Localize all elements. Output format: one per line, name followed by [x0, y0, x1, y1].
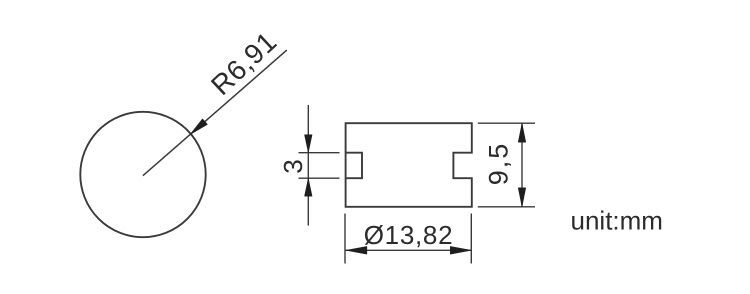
dim 9,5: upper arrowhead — [518, 123, 526, 142]
dim 9,5: lower arrowhead — [518, 188, 526, 207]
dim Ø13,82: dimension line — [345, 249, 471, 251]
radius leader line — [143, 50, 287, 176]
dim 9,5: extension line bottom — [478, 206, 535, 208]
dim Ø13,82: right arrowhead — [450, 246, 471, 254]
svg-text:3: 3 — [278, 159, 308, 173]
dim 3: upper arrowhead — [305, 135, 313, 153]
leader arrowhead — [190, 119, 208, 135]
dim 3: extension line top — [299, 152, 340, 154]
dim Ø13,82: left arrowhead — [346, 246, 367, 254]
svg-text:9,5: 9,5 — [484, 142, 514, 186]
dim 3: dimension line — [307, 105, 309, 226]
dim 3: lower arrowhead — [305, 178, 313, 196]
dim Ø13,82: extension line left — [344, 214, 346, 264]
circle (top view of cap, R6,91) — [80, 112, 205, 237]
svg-text:Ø13,82: Ø13,82 — [364, 220, 454, 250]
dim 9,5: dimension line — [521, 123, 523, 207]
left keyway tab — [346, 153, 362, 179]
dim Ø13,82: extension line right — [470, 214, 472, 264]
dim 3: extension line bottom — [299, 177, 340, 179]
part outline (front view with side notches) — [346, 123, 472, 207]
svg-text:unit:mm: unit:mm — [571, 206, 663, 236]
dim 9,5: extension line top — [478, 122, 535, 124]
